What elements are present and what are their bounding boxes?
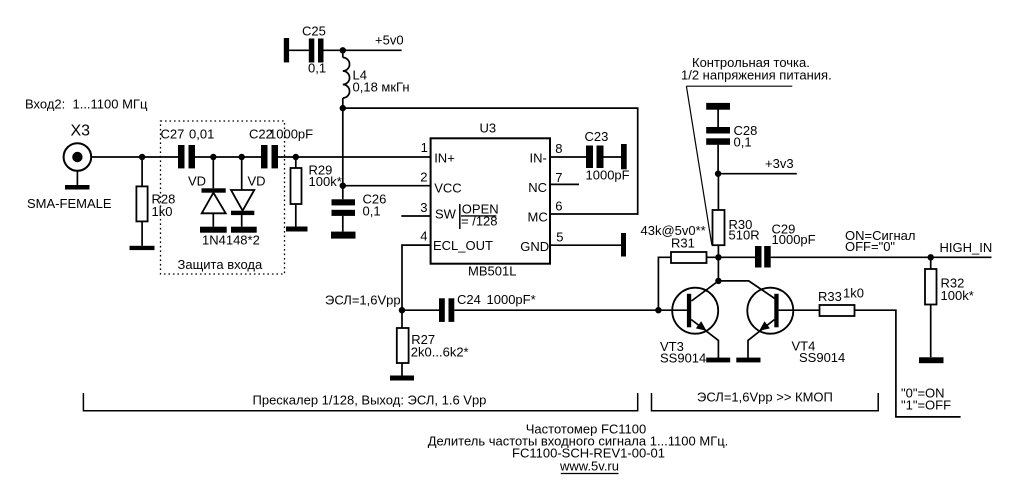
svg-text:+5v0: +5v0 xyxy=(375,33,404,48)
svg-text:5: 5 xyxy=(556,230,563,245)
svg-text:OFF="0": OFF="0" xyxy=(845,239,895,254)
svg-text:1000pF: 1000pF xyxy=(269,127,313,142)
svg-text:2k0...6k2*: 2k0...6k2* xyxy=(411,345,469,360)
svg-text:0,18 мкГн: 0,18 мкГн xyxy=(353,80,410,95)
svg-text:C25: C25 xyxy=(302,23,326,38)
svg-text:ЭСЛ=1,6Vpp >> КМОП: ЭСЛ=1,6Vpp >> КМОП xyxy=(697,389,833,404)
svg-text:www.5v.ru: www.5v.ru xyxy=(559,458,619,473)
svg-text:"1"=OFF: "1"=OFF xyxy=(901,397,951,412)
svg-text:R33: R33 xyxy=(818,289,842,304)
svg-text:R31: R31 xyxy=(671,235,695,250)
svg-text:7: 7 xyxy=(555,170,562,185)
svg-text:510R: 510R xyxy=(729,227,760,242)
svg-text:SMA-FEMALE: SMA-FEMALE xyxy=(27,196,112,211)
svg-text:1k0: 1k0 xyxy=(843,285,864,300)
svg-text:HIGH_IN: HIGH_IN xyxy=(940,240,993,255)
svg-text:Вход2: 1...1100 МГц: Вход2: 1...1100 МГц xyxy=(25,97,148,112)
svg-text:0,1: 0,1 xyxy=(734,134,752,149)
svg-text:MC: MC xyxy=(528,209,548,224)
svg-text:ЭСЛ=1,6Vpp: ЭСЛ=1,6Vpp xyxy=(325,292,401,307)
svg-text:+3v3: +3v3 xyxy=(765,156,794,171)
svg-text:SS9014: SS9014 xyxy=(660,350,706,365)
svg-text:1/2 напряжения питания.: 1/2 напряжения питания. xyxy=(681,67,832,82)
svg-text:SS9014: SS9014 xyxy=(799,350,845,365)
svg-text:VD: VD xyxy=(188,174,206,189)
svg-text:MB501L: MB501L xyxy=(468,264,516,279)
svg-text:IN-: IN- xyxy=(530,151,547,166)
svg-text:1000pF: 1000pF xyxy=(586,167,630,182)
svg-text:Защита входа: Защита входа xyxy=(178,257,263,272)
svg-text:NC: NC xyxy=(528,180,547,195)
svg-text:U3: U3 xyxy=(480,120,497,135)
svg-text:C27: C27 xyxy=(161,127,185,142)
svg-text:= /128: = /128 xyxy=(461,214,498,229)
svg-text:2: 2 xyxy=(420,169,427,184)
svg-text:0,1: 0,1 xyxy=(308,61,326,76)
svg-text:1k0: 1k0 xyxy=(152,204,173,219)
svg-text:VD: VD xyxy=(248,174,266,189)
svg-text:C23: C23 xyxy=(585,129,609,144)
svg-text:ECL_OUT: ECL_OUT xyxy=(433,238,493,253)
svg-text:8: 8 xyxy=(555,141,562,156)
svg-text:3: 3 xyxy=(420,200,427,215)
svg-text:1: 1 xyxy=(421,140,428,155)
svg-text:100k*: 100k* xyxy=(941,288,974,303)
svg-text:X3: X3 xyxy=(71,123,91,140)
svg-text:VCC: VCC xyxy=(434,181,461,196)
svg-text:6: 6 xyxy=(555,198,562,213)
svg-text:100k*: 100k* xyxy=(309,174,342,189)
svg-text:SW: SW xyxy=(435,206,457,221)
svg-text:0,01: 0,01 xyxy=(189,127,214,142)
svg-text:4: 4 xyxy=(420,229,427,244)
svg-text:1000pF: 1000pF xyxy=(772,232,816,247)
svg-text:Прескалер 1/128, Выход: ЭСЛ, 1: Прескалер 1/128, Выход: ЭСЛ, 1.6 Vpp xyxy=(253,392,487,407)
svg-text:1N4148*2: 1N4148*2 xyxy=(202,233,260,248)
svg-text:IN+: IN+ xyxy=(434,151,455,166)
svg-text:GND: GND xyxy=(520,239,549,254)
svg-text:0,1: 0,1 xyxy=(363,204,381,219)
svg-text:1000pF*: 1000pF* xyxy=(487,292,536,307)
svg-text:C24: C24 xyxy=(457,292,481,307)
